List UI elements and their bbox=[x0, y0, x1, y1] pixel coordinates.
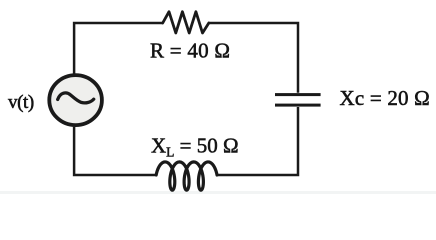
svg-text:XL = 50 Ω: XL = 50 Ω bbox=[151, 133, 239, 159]
resistor R zigzag bbox=[163, 12, 209, 33]
bottom scan shadow bar bbox=[0, 191, 436, 194]
wire: bottom-left segment from inductor to source bbox=[74, 127, 157, 175]
svg-text:v(t): v(t) bbox=[8, 92, 34, 113]
wire: top-right segment from resistor to capacitor bbox=[209, 23, 298, 93]
inductor L coil bbox=[156, 162, 217, 190]
svg-text:Xc = 20 Ω: Xc = 20 Ω bbox=[340, 86, 431, 110]
capacitor C bottom plate bbox=[275, 104, 321, 107]
capacitor C top plate bbox=[275, 93, 321, 96]
AC source V1 circle bbox=[49, 75, 102, 125]
svg-text:R = 40 Ω: R = 40 Ω bbox=[150, 39, 230, 63]
wire: left-top segment from source to resistor bbox=[74, 23, 163, 74]
AC source sine wave bbox=[58, 93, 94, 103]
wire: right-bottom segment from capacitor to inductor bbox=[216, 107, 298, 175]
